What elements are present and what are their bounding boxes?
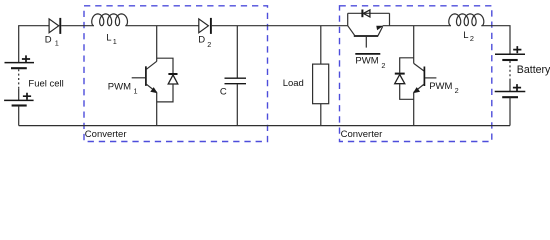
svg-text:Load: Load — [283, 78, 304, 89]
emitter fall — [156, 92, 158, 125]
wire top left — [19, 26, 49, 63]
svg-text:2: 2 — [381, 61, 385, 70]
converter 2 dashed box — [340, 6, 492, 142]
base lead — [365, 37, 367, 48]
cell 2 short plate — [12, 104, 27, 106]
wire top-switch to L2 — [383, 25, 451, 27]
cell 2 long plate — [4, 99, 33, 101]
riser — [413, 26, 415, 64]
svg-text:1: 1 — [134, 86, 138, 95]
base lead — [425, 77, 436, 79]
diode branch bottom — [157, 84, 173, 102]
cell 2 long plate — [495, 91, 526, 93]
collector diagonal — [348, 26, 355, 36]
emitter diagonal — [378, 26, 383, 35]
svg-text:D: D — [198, 34, 205, 45]
cell 1 long plate — [495, 53, 525, 55]
diode D2 — [199, 18, 211, 34]
diode D1 — [49, 18, 60, 34]
dashed link — [509, 61, 511, 80]
body bar — [423, 67, 425, 87]
svg-text:1: 1 — [113, 37, 117, 46]
svg-text:Battery: Battery — [517, 64, 550, 76]
diode branch bottom — [400, 84, 414, 100]
svg-text:PWM: PWM — [108, 82, 131, 93]
bottom lead — [18, 106, 20, 126]
antiparallel diode of Q3 — [395, 73, 405, 75]
cell 2 plus — [513, 84, 521, 91]
base lead — [132, 77, 146, 79]
svg-text:Converter: Converter — [341, 129, 383, 140]
svg-text:2: 2 — [455, 86, 459, 95]
emitter arrowhead — [150, 87, 157, 93]
fuel cell — [4, 55, 34, 125]
emitter arrowhead — [376, 26, 383, 31]
svg-text:D: D — [45, 34, 52, 45]
tee to diode branch top — [157, 58, 173, 73]
diode branch wire — [348, 12, 390, 14]
collector diagonal — [414, 63, 424, 71]
body bar — [145, 66, 147, 86]
bottom wire — [19, 125, 510, 127]
svg-text:Fuel cell: Fuel cell — [28, 78, 63, 89]
cell 1 long plate — [5, 62, 35, 64]
svg-text:2: 2 — [470, 34, 474, 43]
wire L1 to D2 — [125, 25, 198, 27]
capacitor C — [225, 26, 247, 126]
emitter arrowhead — [413, 87, 420, 93]
cell 1 short plate — [11, 67, 27, 69]
load resistor — [313, 26, 329, 126]
collector diagonal — [147, 61, 157, 69]
inductor L1 — [92, 14, 128, 26]
antiparallel diode of Q2 — [361, 10, 363, 18]
left node riser — [347, 13, 349, 25]
emitter diagonal — [414, 84, 424, 92]
svg-text:1: 1 — [55, 39, 59, 48]
svg-text:PWM: PWM — [355, 56, 378, 67]
transistor Q2 (top switch, PWM2 complement) — [348, 10, 390, 48]
emitter diagonal — [147, 84, 157, 92]
emitter fall — [413, 92, 415, 125]
collector riser — [156, 26, 158, 62]
battery — [495, 46, 526, 126]
wire D1 to L1 — [61, 25, 94, 27]
wire L2 to battery — [481, 26, 510, 55]
wire D2 to converter 2 — [212, 25, 348, 27]
svg-text:Converter: Converter — [85, 129, 127, 140]
svg-text:L: L — [106, 33, 111, 44]
cell 1 plus — [22, 55, 30, 62]
transistor Q3 (bottom switch PWM2) — [395, 26, 437, 126]
right node riser — [389, 13, 391, 25]
svg-text:C: C — [220, 86, 227, 97]
transistor Q1 (PWM1 switch) — [132, 26, 178, 126]
svg-text:PWM: PWM — [429, 81, 452, 92]
label PWM2bar overline — [355, 53, 380, 55]
svg-text:2: 2 — [207, 40, 211, 49]
inductor L2 — [449, 14, 484, 26]
cell 1 short plate — [502, 59, 517, 61]
body bar — [354, 35, 378, 37]
cell 1 plus — [513, 46, 521, 53]
cell 2 plus — [23, 93, 31, 100]
dashed link — [18, 69, 20, 89]
tee to diode branch top — [400, 58, 414, 73]
svg-text:L: L — [463, 30, 468, 41]
bottom lead — [509, 98, 511, 126]
cell 2 short plate — [502, 96, 518, 98]
converter 1 dashed box — [84, 6, 268, 142]
antiparallel diode of Q1 — [168, 73, 177, 75]
